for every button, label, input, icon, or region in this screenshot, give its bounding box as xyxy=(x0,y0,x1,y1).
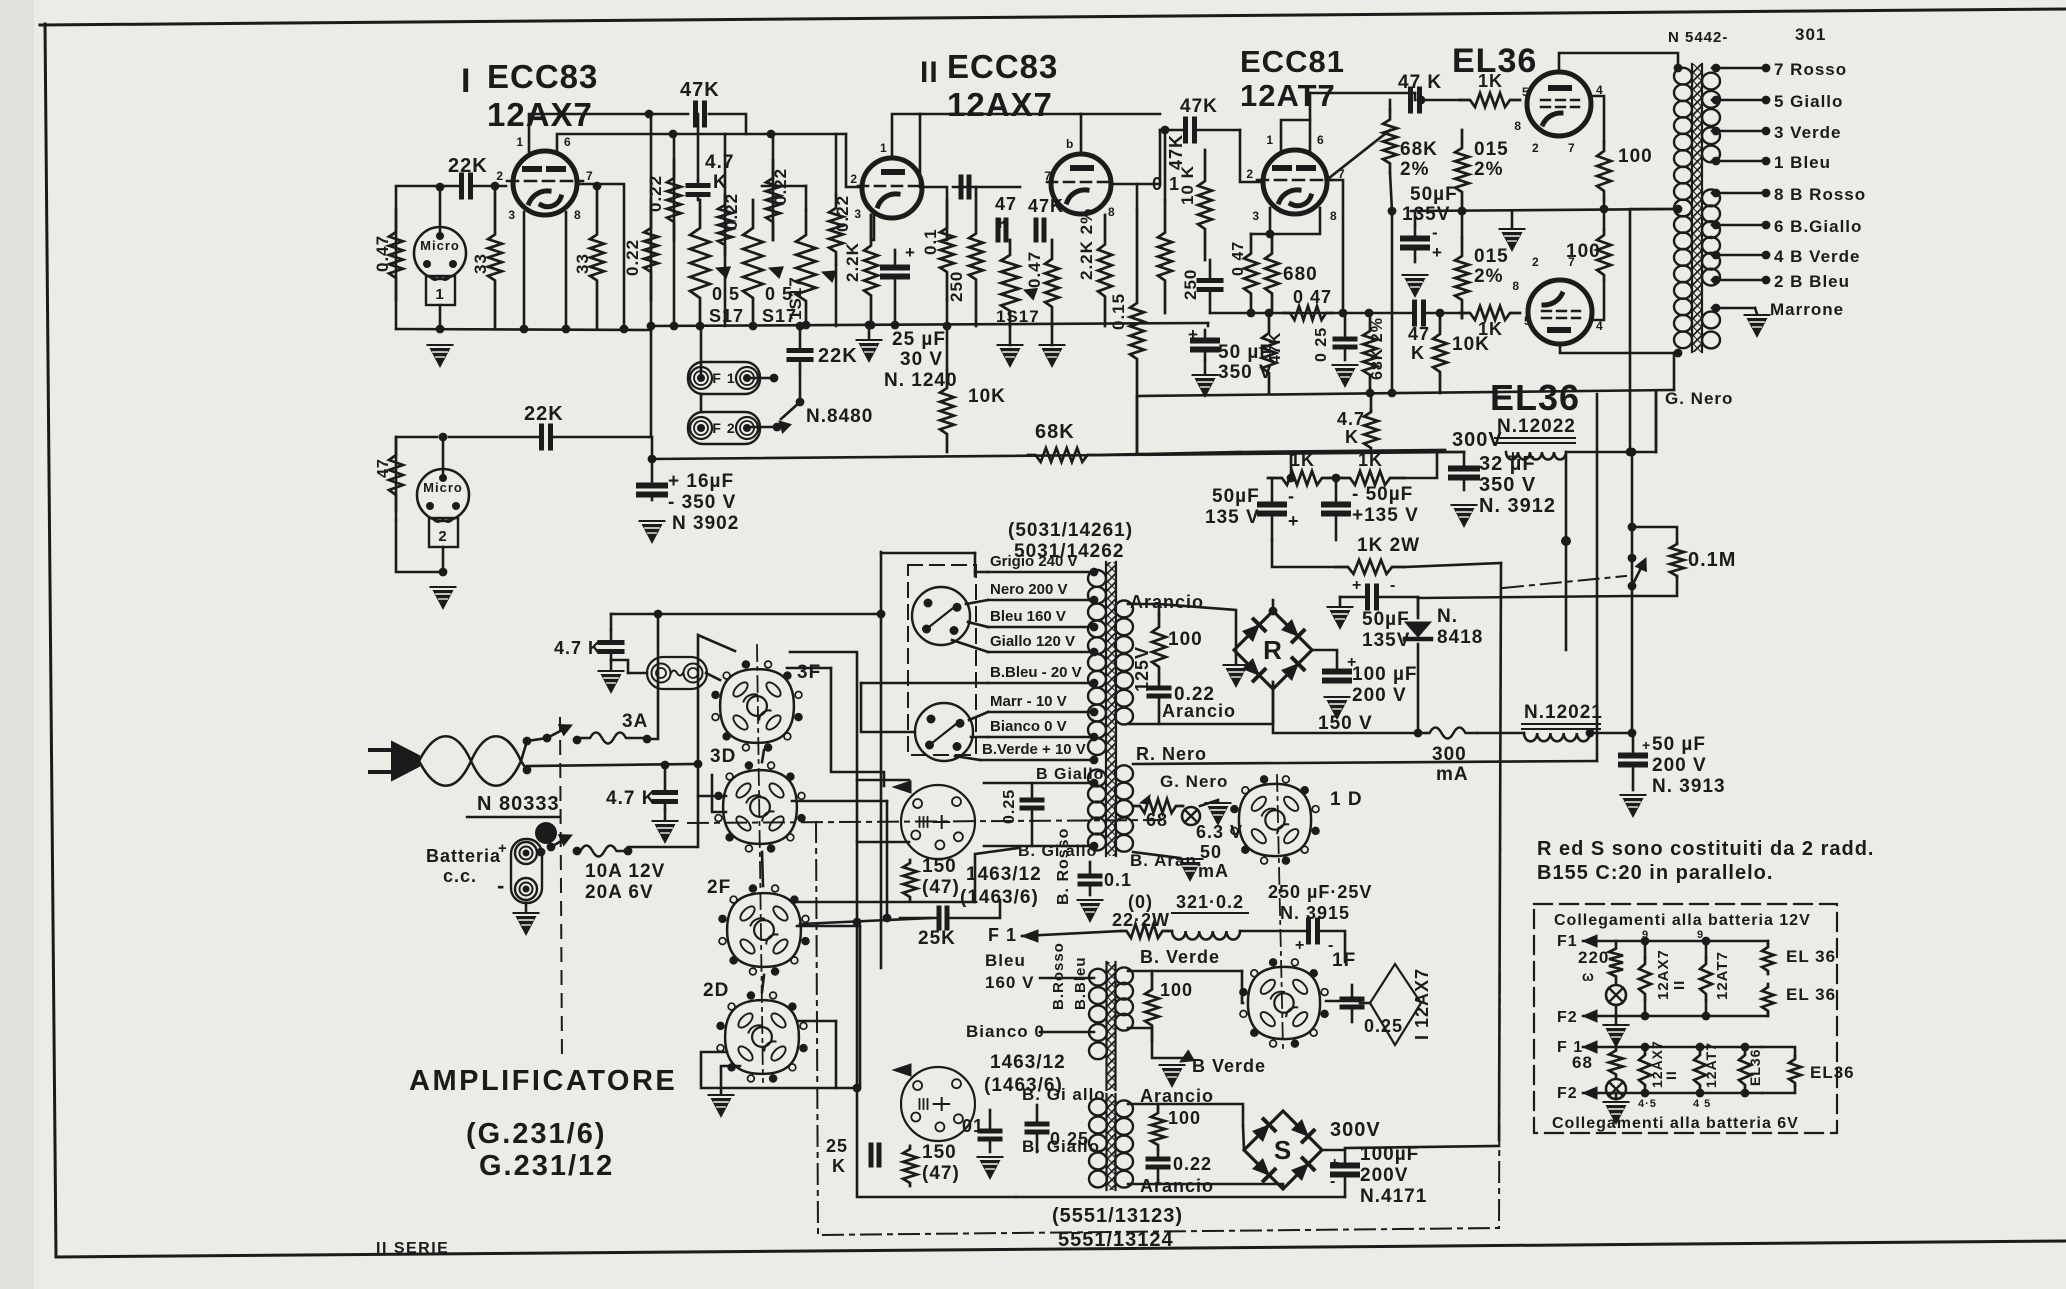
wire bverde link xyxy=(1152,970,1242,973)
resistor 68K bus xyxy=(1028,448,1095,462)
resistor 01 xyxy=(1158,200,1172,313)
node tap marrone xyxy=(1712,304,1721,313)
node y313 d xyxy=(1365,309,1374,318)
wire cord split b xyxy=(521,761,527,770)
wire micro2 bus xyxy=(396,520,443,572)
wire 321 right xyxy=(1240,930,1307,933)
svg-text:135V: 135V xyxy=(1402,204,1450,225)
svg-text:0.1M: 0.1M xyxy=(1688,549,1736,571)
capacitor 0.1 drv xyxy=(1089,862,1092,876)
svg-text:F 1: F 1 xyxy=(988,925,1017,945)
resistor 220 xyxy=(1609,941,1623,984)
node 33a top xyxy=(491,182,500,191)
arrow left b xyxy=(893,1064,911,1076)
knob battery switch xyxy=(535,822,557,844)
wire f2 12v bus xyxy=(1583,1015,1768,1018)
svg-text:Micro: Micro xyxy=(423,480,463,495)
node sw a2 xyxy=(543,734,552,743)
wire R nero up xyxy=(1596,394,1599,761)
svg-text:0 47: 0 47 xyxy=(1293,287,1332,307)
wire 47k top v3 xyxy=(1137,130,1160,184)
svg-text:100: 100 xyxy=(1160,980,1193,1000)
tube V2b ECC83 II half 2 xyxy=(1051,154,1111,214)
capacitor 47K c xyxy=(1034,220,1039,240)
wire tap 8 B Rosso xyxy=(1712,192,1766,195)
wire 015 link xyxy=(1461,210,1464,238)
svg-text:Bianco 0: Bianco 0 xyxy=(966,1022,1045,1041)
node 12AX7 top xyxy=(1641,937,1650,946)
svg-text:350 V: 350 V xyxy=(1479,474,1536,496)
svg-text:22·2W: 22·2W xyxy=(1112,910,1170,930)
svg-text:321·0.2: 321·0.2 xyxy=(1176,892,1244,912)
capacitor 50uF 135V el36 xyxy=(1414,226,1417,239)
mains plug xyxy=(370,750,392,772)
node 1k mid xyxy=(1332,474,1341,483)
fuse holder xyxy=(647,657,707,689)
transformer 5551 secondary xyxy=(1115,1100,1133,1117)
node tap dot inner 3 Verde xyxy=(1712,127,1721,136)
svg-text:+: + xyxy=(1352,577,1362,594)
wire battery feed xyxy=(628,764,698,847)
node bus 753 xyxy=(749,322,758,331)
choke N 12021 xyxy=(1524,733,1590,741)
wire bridge gnd xyxy=(1235,650,1238,663)
node tap 8 B Rosso xyxy=(1762,189,1771,198)
wire int sec bot xyxy=(1128,1028,1152,1040)
wire el36 grid bus xyxy=(1414,93,1417,100)
wire gnd stub 869 xyxy=(868,325,871,338)
svg-text:47K: 47K xyxy=(1267,332,1284,364)
wire f1 stub xyxy=(747,377,774,380)
heater zigzag 12AT7 6v xyxy=(1694,1047,1706,1093)
node 1630 452 xyxy=(1626,448,1635,457)
svg-text:4.7: 4.7 xyxy=(1337,409,1365,429)
arrow F1 xyxy=(1022,930,1038,942)
svg-text:-: - xyxy=(1330,1173,1336,1190)
svg-text:2: 2 xyxy=(496,169,504,183)
heater zigzag 12AX7 6v xyxy=(1639,1047,1651,1093)
wire gnd 12v stub xyxy=(1615,1016,1618,1024)
wire 250uF right xyxy=(1319,931,1345,962)
svg-text:12AT7: 12AT7 xyxy=(1240,78,1336,113)
dash-dot boundary xyxy=(688,601,1501,1235)
svg-text:2%: 2% xyxy=(1400,159,1429,180)
resistor 47K v3b xyxy=(1262,313,1276,393)
svg-text:(1463/6): (1463/6) xyxy=(960,887,1039,908)
svg-text:33: 33 xyxy=(471,253,490,274)
node batt sw b xyxy=(547,843,556,852)
ground 4.7k b xyxy=(655,824,676,844)
wire 68k2 top xyxy=(1389,100,1392,110)
svg-text:ECC81: ECC81 xyxy=(1240,44,1345,79)
svg-text:-: - xyxy=(1288,486,1295,506)
node EL36 6v t xyxy=(1741,1043,1750,1052)
wire g nero long xyxy=(1655,392,1658,452)
svg-text:1F: 1F xyxy=(1332,950,1356,971)
border bottom xyxy=(56,1241,2066,1257)
wire bbleu rail xyxy=(861,682,988,685)
capacitor 50uF 135V ps b xyxy=(1335,478,1338,505)
rotary switch 1F xyxy=(1321,1011,1328,1018)
svg-text:2.2K: 2.2K xyxy=(843,242,862,282)
svg-text:1K: 1K xyxy=(1478,71,1503,91)
ground 100uF xyxy=(1327,700,1348,720)
node f2 out xyxy=(773,423,782,432)
ground n3913 xyxy=(1623,798,1644,818)
switch battery arm xyxy=(551,837,568,847)
wire y902 xyxy=(792,901,975,904)
ground 2D xyxy=(711,1098,732,1118)
wire 4.7k gnd xyxy=(610,662,613,670)
transformer 5551 primary xyxy=(1089,1099,1107,1116)
resistor 0.47 v3 xyxy=(1244,234,1258,313)
wire v1 pin3 down xyxy=(523,212,526,329)
svg-text:0 25: 0 25 xyxy=(1313,327,1330,362)
svg-text:68K: 68K xyxy=(1035,421,1075,443)
node 12AT7 top xyxy=(1702,937,1711,946)
wire 01 up xyxy=(1164,130,1167,200)
svg-text:N.8480: N.8480 xyxy=(806,406,873,427)
wire el36 heater link xyxy=(1767,941,1770,944)
svg-text:ECC83: ECC83 xyxy=(487,58,598,95)
svg-text:(5031/14261): (5031/14261) xyxy=(1008,520,1133,541)
wire 50uf135 lead xyxy=(1414,211,1417,226)
wire mains b xyxy=(527,764,698,766)
node tap 2 B Bleu xyxy=(1762,276,1771,285)
node tap dot inner 2 B Bleu xyxy=(1712,276,1721,285)
wire grid v1 xyxy=(472,185,506,188)
arrow g nero xyxy=(1140,795,1150,804)
wire v3 pin1 up xyxy=(1281,120,1310,152)
ground 50uf135 xyxy=(1405,278,1426,298)
svg-text:20A 6V: 20A 6V xyxy=(585,882,654,903)
wire y211 bus xyxy=(1411,209,1678,211)
svg-text:50µF: 50µF xyxy=(1212,486,1260,507)
capacitor 47K v3 xyxy=(1183,119,1188,141)
svg-text:12AT7: 12AT7 xyxy=(1703,1042,1719,1088)
svg-text:Bleu: Bleu xyxy=(985,951,1026,970)
fuse 3A xyxy=(577,733,647,744)
capacitor 4.7K xyxy=(697,180,700,186)
wire v3cap stub xyxy=(1204,360,1207,374)
resistor 0.47 xyxy=(389,210,403,300)
wire bridge R top xyxy=(1272,600,1275,611)
svg-text:8 B Rosso: 8 B Rosso xyxy=(1774,185,1866,204)
svg-text:Giallo 120 V: Giallo 120 V xyxy=(990,633,1075,650)
wire plug low pin c xyxy=(955,756,980,760)
svg-text:47K: 47K xyxy=(680,79,720,101)
svg-text:R ed S sono costituiti da 2 ra: R ed S sono costituiti da 2 radd. xyxy=(1537,838,1874,860)
wire micro1 bottom xyxy=(439,305,442,329)
svg-text:4.7 K: 4.7 K xyxy=(606,788,656,809)
node mesh b3 xyxy=(883,914,892,923)
svg-text:R: R xyxy=(1263,635,1283,665)
wire s bottom bus xyxy=(1016,1196,1345,1199)
wire x1566 stub xyxy=(1565,452,1568,650)
svg-text:1463/12: 1463/12 xyxy=(966,864,1042,885)
svg-text:II: II xyxy=(920,56,939,89)
node 16uf xyxy=(648,455,657,464)
wire y394 bus xyxy=(1137,390,1674,396)
svg-text:135 V: 135 V xyxy=(1205,507,1260,528)
node bus 871 xyxy=(867,321,876,330)
resistor 68K2 f xyxy=(1383,110,1397,173)
svg-text:0.1: 0.1 xyxy=(921,228,940,255)
ground 1052 xyxy=(1042,348,1063,368)
switch mains link xyxy=(527,738,547,741)
wire v1 pin7 right xyxy=(577,184,624,329)
ground heater xyxy=(1208,806,1229,826)
svg-text:4: 4 xyxy=(1596,319,1604,333)
wire b aran xyxy=(1133,852,1180,858)
jack F1 xyxy=(688,362,760,394)
svg-text:10K: 10K xyxy=(968,386,1006,407)
resistor 10K v2 xyxy=(940,370,954,452)
wire v3 top right xyxy=(1310,92,1415,95)
wire micro1 top xyxy=(439,187,442,236)
node 4.7kb xyxy=(661,761,670,770)
wire bbleu rail down xyxy=(861,683,915,732)
svg-text:3: 3 xyxy=(1252,209,1260,223)
svg-text:(5551/13123): (5551/13123) xyxy=(1052,1205,1183,1227)
node n8480 pivot xyxy=(796,398,805,407)
svg-text:EL36: EL36 xyxy=(1490,377,1580,418)
wire y923 long xyxy=(800,918,931,924)
capacitor 22K input xyxy=(459,175,464,197)
svg-text:1: 1 xyxy=(516,135,524,149)
svg-text:F2: F2 xyxy=(1557,1085,1578,1102)
svg-text:B. Giallo: B. Giallo xyxy=(1022,1137,1100,1156)
svg-text:F 2: F 2 xyxy=(712,420,735,436)
resistor 100 a xyxy=(1597,142,1611,200)
capacitor 100uF 200V xyxy=(1325,669,1349,675)
wire 4.7kb stub xyxy=(664,810,667,820)
wire n12021 right xyxy=(1590,732,1632,735)
potentiometer 0.5 S17 b xyxy=(743,200,763,326)
arrow F1 12v xyxy=(1583,935,1597,947)
power transformer heater winding xyxy=(1115,765,1133,782)
node rail y614 xyxy=(877,610,886,619)
svg-text:8: 8 xyxy=(1514,119,1522,133)
node 1k row left xyxy=(1287,474,1296,483)
svg-text:22K: 22K xyxy=(818,345,858,367)
node pin3 bus xyxy=(520,325,529,334)
node n12022 right xyxy=(1628,448,1637,457)
resistor 0.1 v2a xyxy=(940,200,954,300)
wire 100 mid xyxy=(1603,200,1606,230)
node batt feed xyxy=(694,760,703,769)
node bus 700 xyxy=(696,322,705,331)
svg-text:B. Rosso: B. Rosso xyxy=(1055,828,1072,905)
svg-text:Collegamenti alla batteria 6V: Collegamenti alla batteria 6V xyxy=(1552,1115,1799,1132)
wire rail x881 xyxy=(880,552,883,968)
resistor 0.22 d xyxy=(766,160,780,240)
capacitor 22K f xyxy=(799,326,802,351)
svg-text:Nero 200 V: Nero 200 V xyxy=(990,581,1068,598)
heater EL36 6v solo xyxy=(1789,1056,1801,1086)
svg-text:+: + xyxy=(1288,511,1300,531)
wire micro2 grid wire xyxy=(449,436,540,439)
svg-text:47K: 47K xyxy=(1180,96,1218,117)
wire plug up pin a xyxy=(966,600,988,604)
node 12AT7 6v t xyxy=(1696,1043,1705,1052)
capacitor 250uF 25V xyxy=(1306,920,1311,942)
wire aranc top xyxy=(1128,1104,1158,1108)
underline N12021 xyxy=(1522,723,1600,725)
svg-text:5 Giallo: 5 Giallo xyxy=(1774,92,1843,111)
capacitor 50uF 135V ps a xyxy=(1271,478,1274,505)
wire v2b out xyxy=(1111,184,1137,210)
resistor 0.22 b xyxy=(667,160,681,240)
node tap 4 B Verde xyxy=(1762,251,1771,260)
wire gnd stub 1052 xyxy=(1051,326,1054,345)
node fb pivot xyxy=(1628,582,1637,591)
arrow left a xyxy=(893,781,911,793)
svg-text:B.Bleu: B.Bleu xyxy=(1072,956,1089,1010)
tube socket upper xyxy=(901,785,975,859)
wire cap to rail xyxy=(396,185,460,188)
switch mains arm xyxy=(547,727,568,738)
wire socket feed a xyxy=(857,779,909,782)
arrow F2 12v xyxy=(1583,1010,1597,1022)
svg-text:+: + xyxy=(1188,325,1199,344)
ground bridge R xyxy=(1226,668,1247,688)
svg-text:mA: mA xyxy=(1198,861,1229,881)
resistor 100 b xyxy=(1597,230,1611,280)
capacitor 16uF xyxy=(651,459,654,486)
svg-text:100 µF: 100 µF xyxy=(1352,664,1418,685)
tube EL36 bottom xyxy=(1528,280,1592,344)
capacitor 22K micro2 xyxy=(539,426,544,448)
wire mesh b3 xyxy=(886,801,889,918)
wire el36b grid xyxy=(1425,312,1460,315)
node n12021 out xyxy=(1586,729,1595,738)
wire batt to 3D xyxy=(698,795,726,798)
wiper arrow a xyxy=(714,262,730,278)
wire s cap down xyxy=(1344,1178,1347,1197)
node rail x674 bus xyxy=(670,322,679,331)
heater zigzag 12AT7 12v xyxy=(1700,958,1712,1000)
node 01 top xyxy=(1161,126,1170,135)
heater EL36 b xyxy=(1762,984,1774,1014)
svg-text:0.22: 0.22 xyxy=(833,195,852,232)
svg-text:4.7 K: 4.7 K xyxy=(554,638,602,658)
wire tap Marrone xyxy=(1712,307,1755,310)
svg-text:300V: 300V xyxy=(1452,429,1503,451)
svg-text:1K: 1K xyxy=(1358,450,1383,470)
wire mesh c5 xyxy=(701,1052,857,1088)
node tap dot inner 4 B Verde xyxy=(1712,251,1721,260)
wire 047 top link xyxy=(1251,233,1270,236)
svg-text:II: II xyxy=(1671,980,1688,990)
svg-text:+: + xyxy=(1642,737,1651,753)
svg-text:8: 8 xyxy=(574,208,582,222)
node batt contact xyxy=(573,847,582,856)
resistor 250 v2a xyxy=(969,187,983,326)
bridge rectifier S xyxy=(1244,1111,1322,1189)
wire ptap Giallo 120 V xyxy=(988,651,1094,654)
choke N 12022 xyxy=(1506,452,1566,460)
node 10k bus xyxy=(943,322,952,331)
capacitor 0.25 xyxy=(1344,313,1347,339)
node bridge R top xyxy=(1269,607,1278,616)
wire v1 pin6 up xyxy=(557,134,846,152)
wire rail x975 stub xyxy=(974,553,977,576)
wire fuseholder left xyxy=(628,672,647,675)
svg-text:100: 100 xyxy=(1168,1108,1201,1128)
node ptap Bleu 160 V xyxy=(1090,623,1099,632)
resistor 22 2W xyxy=(1121,924,1168,938)
wire 50uFc right xyxy=(1378,596,1418,599)
connector Micro 1 xyxy=(414,227,466,279)
node 68k2a mid xyxy=(1388,207,1397,216)
svg-text:Bleu 160 V: Bleu 160 V xyxy=(990,608,1066,625)
node 12AX7 6v t xyxy=(1641,1043,1650,1052)
wire mesh d3 xyxy=(762,975,764,992)
svg-text:+: + xyxy=(1330,1155,1340,1172)
wire el36 heater link2 xyxy=(1767,1014,1770,1016)
ground b aran xyxy=(1180,862,1201,882)
svg-text:7: 7 xyxy=(586,169,594,183)
capacitor 25 K b xyxy=(869,1145,874,1165)
wire ptap Nero 200 V xyxy=(988,599,1094,602)
svg-text:47 K: 47 K xyxy=(1398,72,1442,93)
output transformer core xyxy=(1692,64,1702,352)
power transformer primary xyxy=(1088,570,1106,587)
ground marrone xyxy=(1747,318,1768,338)
svg-text:Arancio: Arancio xyxy=(1130,592,1204,612)
fuse 10A xyxy=(577,846,628,857)
node tap 7 Rosso xyxy=(1762,64,1771,73)
node tap dot inner 6 B.Giallo xyxy=(1712,221,1721,230)
svg-text:8: 8 xyxy=(1108,205,1116,219)
svg-text:N 5442-: N 5442- xyxy=(1668,29,1728,46)
resistor 33 a xyxy=(488,186,502,329)
svg-text:6: 6 xyxy=(564,135,572,149)
node x624 bus xyxy=(620,325,629,334)
node EL36 6v b xyxy=(1741,1089,1750,1098)
svg-text:3: 3 xyxy=(508,208,516,222)
wire v2 top bus xyxy=(920,113,1081,116)
wire 50uFc left xyxy=(1340,596,1366,599)
wire ptap Marr - 10 V xyxy=(988,711,1094,714)
node v3 cathode xyxy=(1266,230,1275,239)
wiper arrow 1s17b xyxy=(1022,284,1037,299)
resistor 4.7K ps xyxy=(1364,410,1378,450)
wire ptap B.Bleu - 20 V xyxy=(988,682,1094,685)
svg-text:Marr - 10 V: Marr - 10 V xyxy=(990,693,1067,710)
svg-text:7: 7 xyxy=(1044,169,1052,183)
wire rail x881 top xyxy=(881,552,975,555)
border left xyxy=(45,24,56,1257)
svg-text:2: 2 xyxy=(850,172,858,186)
svg-text:N.12021: N.12021 xyxy=(1524,702,1603,723)
ground micro2 xyxy=(433,590,454,610)
resistor 0.47 v2 xyxy=(1045,240,1059,326)
node prim bot xyxy=(1674,349,1683,358)
wire 0.1M top xyxy=(1632,527,1677,543)
svg-text:8418: 8418 xyxy=(1437,627,1483,648)
potentiometer 1S17 b xyxy=(1001,240,1019,326)
heater 12AT7 12v b xyxy=(1705,1000,1708,1016)
wire v1 pin8 down xyxy=(565,212,568,329)
wire 47K v3 right xyxy=(1196,129,1240,132)
resistor 0.22 a xyxy=(644,200,658,300)
svg-text:0 47: 0 47 xyxy=(1230,241,1247,276)
wire x1459 327 xyxy=(1207,323,1210,326)
svg-text:B155 C:20 in parallelo.: B155 C:20 in parallelo. xyxy=(1537,862,1773,884)
svg-text:2%: 2% xyxy=(1474,266,1503,287)
